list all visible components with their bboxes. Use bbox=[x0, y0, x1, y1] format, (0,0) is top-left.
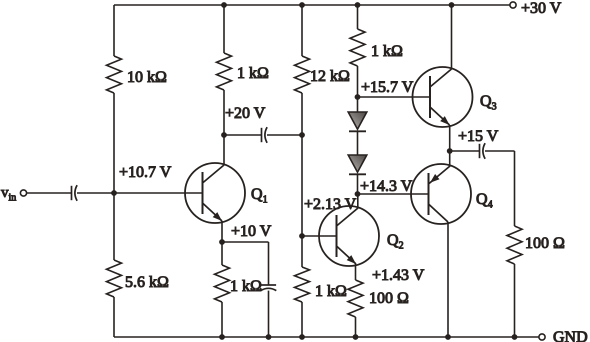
node Q2 emitter ground bbox=[353, 334, 359, 340]
wire 1k to +15.7 node bbox=[357, 66, 359, 97]
wire Q2 emitter lead bbox=[355, 264, 357, 280]
resistor 5.6 k&#937; bbox=[107, 260, 170, 297]
capacitor input coupling bbox=[72, 185, 78, 201]
node +14.3 V bbox=[355, 178, 413, 197]
wire 12k to cap node bbox=[301, 93, 303, 135]
node +10 V bbox=[219, 223, 272, 245]
wire load resistor to ground bbox=[514, 264, 516, 337]
svg-text:+10 V: +10 V bbox=[231, 223, 272, 240]
wire +20V node to coupling capacitor bbox=[224, 134, 262, 136]
svg-text:+2.13 V: +2.13 V bbox=[304, 196, 357, 213]
wire D2 to +14.3 node bbox=[357, 174, 359, 194]
wire Q4 collector to ground bbox=[447, 222, 449, 337]
wire bypass capacitor to ground bbox=[268, 291, 270, 337]
terminal +30 V bbox=[510, 0, 562, 17]
node top rail diode column bbox=[355, 2, 361, 8]
resistor 12 k&#937; bbox=[295, 56, 351, 93]
svg-text:1 kΩ: 1 kΩ bbox=[315, 283, 347, 300]
wire Q1 emitter to +10V node bbox=[221, 221, 223, 242]
capacitor output coupling bbox=[480, 143, 486, 159]
node bypass capacitor ground bbox=[266, 334, 272, 340]
svg-text:Q4: Q4 bbox=[476, 191, 493, 211]
svg-text:Q2: Q2 bbox=[387, 232, 404, 252]
wire +15V node to output capacitor bbox=[450, 150, 480, 152]
terminal GND bbox=[539, 329, 588, 342]
wire coupling capacitor to 12k column bbox=[267, 134, 302, 136]
node Q2 base junction bbox=[299, 233, 305, 239]
node voltage label +2.13 V bbox=[304, 196, 357, 213]
svg-text:+15 V: +15 V bbox=[458, 128, 499, 145]
node top rail Q3 collector bbox=[449, 2, 455, 8]
wire 1k resistor to +20V node bbox=[223, 90, 225, 165]
transistor Q3 bbox=[413, 67, 497, 127]
node lower 1k ground bbox=[299, 334, 305, 340]
svg-text:+1.43 V: +1.43 V bbox=[372, 267, 425, 284]
node +20 V bbox=[221, 105, 266, 138]
transistor Q1 bbox=[185, 163, 268, 223]
diode D2 bbox=[348, 155, 367, 174]
capacitor interstage coupling bbox=[262, 127, 268, 143]
svg-text:GND: GND bbox=[553, 329, 588, 342]
svg-text:Q1: Q1 bbox=[251, 186, 268, 206]
wire Q2 base node to 1k bbox=[301, 236, 303, 267]
svg-text:10 kΩ: 10 kΩ bbox=[127, 69, 167, 86]
capacitor emitter bypass bbox=[261, 285, 277, 291]
resistor 1 k&#937; lower bias bbox=[295, 267, 348, 302]
wire left rail upper bbox=[113, 5, 115, 56]
wire Q1 base bbox=[114, 192, 203, 194]
resistor 10 k&#937; bbox=[107, 56, 168, 93]
svg-text:+20 V: +20 V bbox=[225, 105, 266, 122]
transistor Q2 bbox=[319, 206, 404, 266]
svg-text:100 Ω: 100 Ω bbox=[369, 290, 409, 307]
resistor 100 &#937; load bbox=[507, 226, 565, 264]
svg-text:vin: vin bbox=[1, 185, 16, 204]
wire output capacitor to load bbox=[485, 151, 515, 226]
wire +10V node to bypass capacitor bbox=[222, 242, 269, 285]
wire Q3 emitter to Q4 emitter bbox=[449, 125, 451, 165]
diode D1 bbox=[348, 112, 367, 131]
wire emitter resistor to ground rail bbox=[221, 302, 223, 337]
svg-text:5.6 kΩ: 5.6 kΩ bbox=[125, 274, 169, 291]
wire Q3 base bbox=[358, 96, 431, 98]
node +15 V bbox=[447, 128, 499, 154]
terminal v_in bbox=[1, 185, 27, 204]
wire +10V node to emitter resistor bbox=[221, 242, 223, 265]
wire cap node to Q2 base node bbox=[301, 135, 303, 236]
wire left rail middle bbox=[113, 93, 115, 260]
wire Q2 base bbox=[302, 235, 336, 237]
wire input to capacitor bbox=[27, 192, 72, 194]
wire Q4 base bbox=[358, 193, 429, 195]
wire top supply rail bbox=[114, 4, 510, 6]
wire Q3 collector to top rail bbox=[451, 5, 453, 69]
svg-text:100 Ω: 100 Ω bbox=[525, 235, 565, 252]
svg-text:+10.7 V: +10.7 V bbox=[119, 164, 172, 181]
wire 12k top lead bbox=[301, 5, 303, 56]
wire bottom ground rail bbox=[114, 336, 539, 338]
svg-text:12 kΩ: 12 kΩ bbox=[310, 68, 350, 85]
resistor 1 k&#937; Q1 emitter bbox=[215, 265, 263, 302]
node Q4 collector ground bbox=[445, 334, 451, 340]
svg-text:+30 V: +30 V bbox=[521, 0, 562, 17]
wire lower 1k to ground bbox=[301, 302, 303, 337]
node +10.7 V divider bbox=[111, 164, 172, 196]
svg-text:+14.3 V: +14.3 V bbox=[360, 178, 413, 195]
svg-text:1 kΩ: 1 kΩ bbox=[230, 278, 262, 295]
node top rail to 1k collector resistor bbox=[221, 2, 227, 8]
resistor 100 &#937; Q2 emitter bbox=[348, 280, 409, 317]
svg-text:Q3: Q3 bbox=[480, 93, 497, 113]
node top rail 12k bbox=[299, 2, 305, 8]
node coupling cap junction bbox=[299, 132, 305, 138]
wire 1k collector resistor top lead bbox=[223, 5, 225, 53]
wire Q2 collector to +14.3 node bbox=[357, 194, 359, 208]
wire left rail lower bbox=[113, 297, 115, 337]
svg-text:1 kΩ: 1 kΩ bbox=[371, 43, 403, 60]
wire top 1k lead bbox=[357, 5, 359, 29]
svg-text:+15.7 V: +15.7 V bbox=[361, 79, 414, 96]
node voltage label +1.43 V bbox=[372, 267, 425, 284]
node +15.7 V bbox=[355, 79, 414, 100]
wire capacitor to divider node bbox=[77, 192, 114, 194]
wire Q2 emitter resistor to ground bbox=[355, 317, 357, 337]
node load ground bbox=[512, 334, 518, 340]
resistor 1 k&#937; bias top bbox=[350, 29, 403, 66]
node emitter resistor ground bbox=[219, 334, 225, 340]
wire D1 to D2 bbox=[357, 131, 359, 155]
wire +15.7 node to diode D1 bbox=[357, 97, 359, 112]
svg-text:1 kΩ: 1 kΩ bbox=[237, 65, 269, 82]
transistor Q4 bbox=[411, 164, 493, 224]
resistor 1 k&#937; Q1 collector bbox=[217, 53, 270, 90]
